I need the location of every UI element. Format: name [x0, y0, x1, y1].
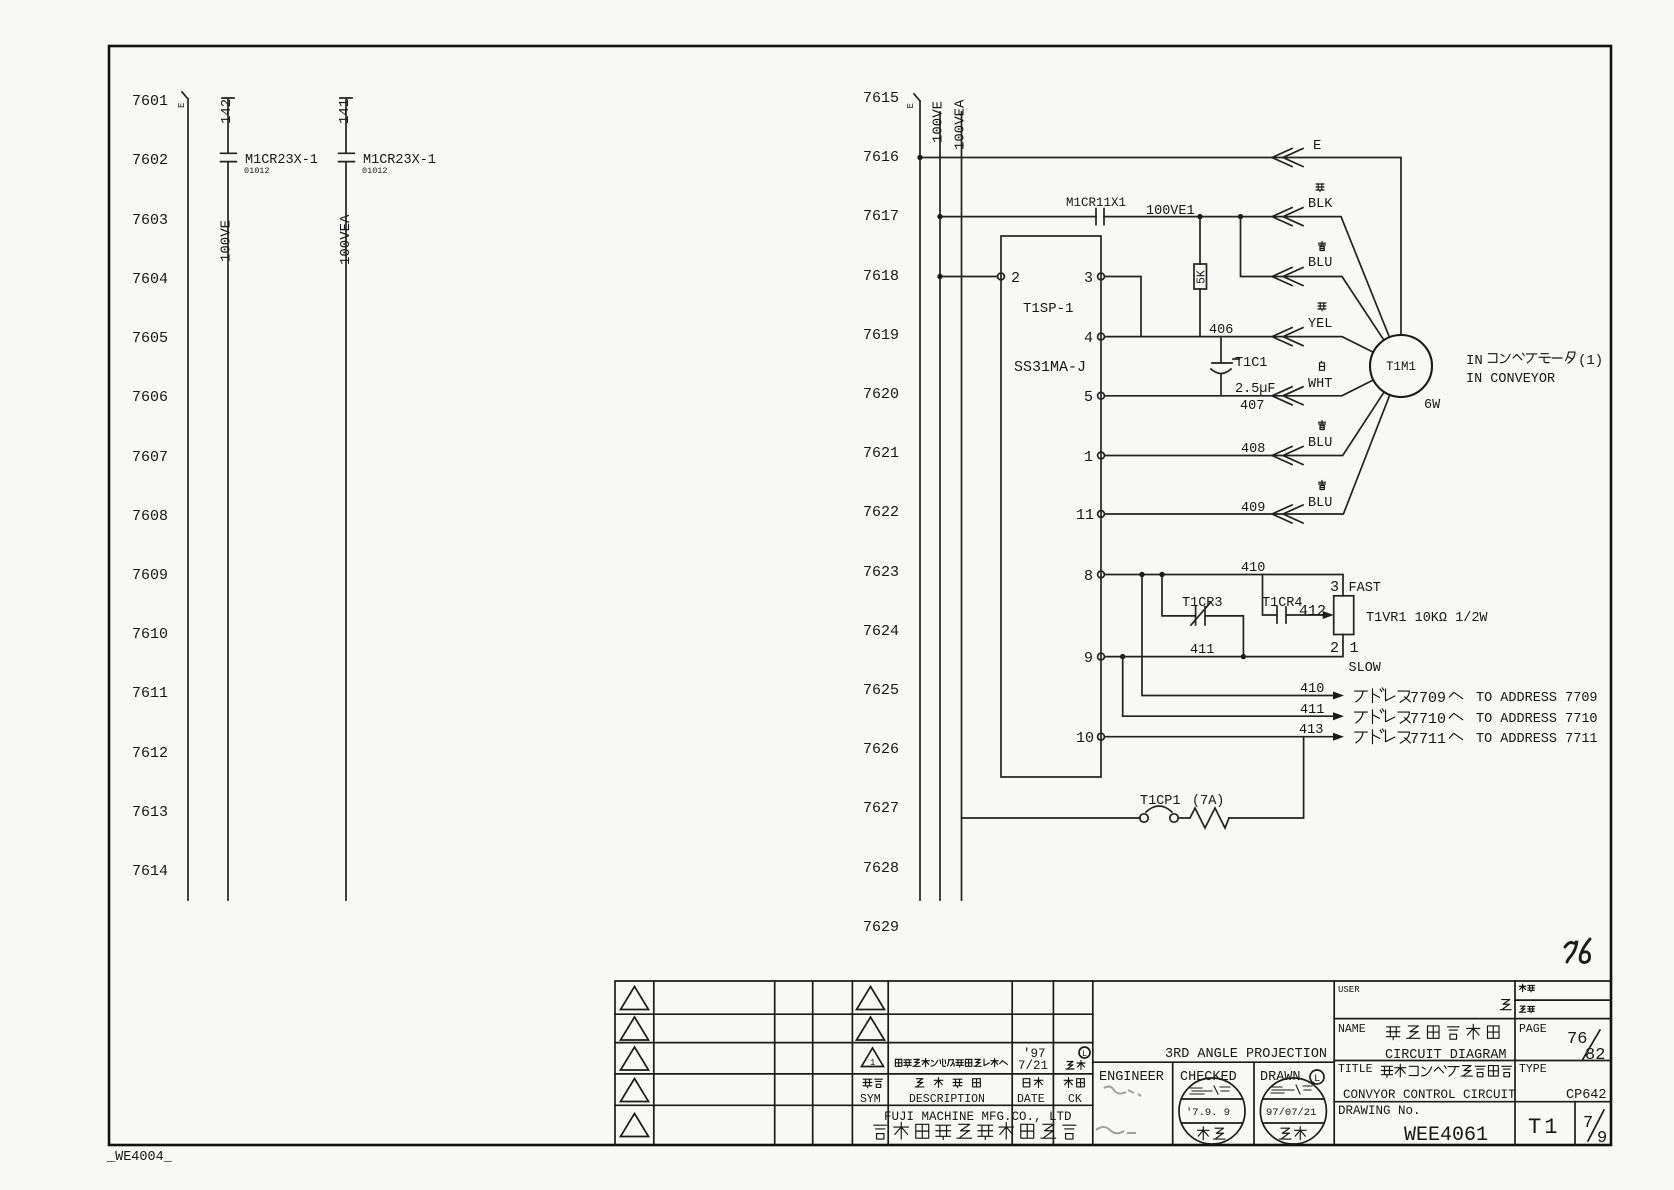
- svg-text:413: 413: [1299, 723, 1323, 738]
- svg-text:408: 408: [1241, 442, 1265, 457]
- wire 7617 100VE1 / BLK to motor: [940, 208, 1389, 338]
- svg-text:7611: 7611: [132, 685, 168, 702]
- net label 100VE1: [1146, 204, 1195, 219]
- svg-text:100VEA: 100VEA: [953, 99, 969, 150]
- svg-text:'7.9. 9: '7.9. 9: [1186, 1107, 1230, 1119]
- svg-text:7608: 7608: [132, 508, 168, 525]
- svg-text:T1SP-1: T1SP-1: [1023, 301, 1073, 317]
- junction T1CR3 x wire 411: [1241, 654, 1246, 659]
- svg-text:7709: 7709: [1410, 690, 1446, 707]
- svg-text:PAGE: PAGE: [1519, 1023, 1547, 1036]
- svg-text:USER: USER: [1338, 985, 1360, 995]
- net 100VE right bus: [931, 101, 947, 900]
- svg-text:NAME: NAME: [1338, 1023, 1366, 1036]
- wire 141 / net 100VEA left bus: [337, 98, 354, 900]
- junction 7617 x resistor branch: [1197, 214, 1202, 219]
- net 100VEA right bus: [953, 99, 969, 900]
- svg-text:T1M1: T1M1: [1386, 360, 1416, 374]
- svg-text:7628: 7628: [863, 860, 899, 877]
- page 76/82: [1519, 1023, 1605, 1065]
- svg-text:100VE: 100VE: [219, 220, 235, 262]
- svg-text:7710: 7710: [1410, 711, 1446, 728]
- svg-text:SS31MA-J: SS31MA-J: [1014, 359, 1086, 376]
- svg-text:7616: 7616: [863, 149, 899, 166]
- motor name IN conveyor motor (1): [1466, 352, 1603, 387]
- revision mark 1 row: [862, 1048, 884, 1068]
- svg-text:7618: 7618: [863, 268, 899, 285]
- sheet T1 7/9: [1528, 1110, 1607, 1148]
- svg-text:WEE4061: WEE4061: [1404, 1124, 1488, 1147]
- svg-text:7602: 7602: [132, 152, 168, 169]
- svg-text:7604: 7604: [132, 271, 168, 288]
- wire 7618 to connector pin 2: [940, 276, 998, 278]
- svg-text:E: E: [1313, 138, 1321, 154]
- svg-text:BLU: BLU: [1308, 256, 1332, 271]
- wire BLU jumper 7617 branch to motor: [1241, 217, 1384, 341]
- svg-text:WHT: WHT: [1308, 377, 1332, 392]
- wire 413 pin 10 to address 7711: [1104, 723, 1344, 741]
- svg-text:E: E: [906, 103, 916, 108]
- svg-text:T1CR3: T1CR3: [1182, 596, 1223, 611]
- potentiometer T1VR1: [1330, 579, 1488, 676]
- svg-text:T1CR4: T1CR4: [1262, 596, 1303, 611]
- wire 406 YEL to motor: [1104, 323, 1373, 352]
- drawing no WEE4061: [1338, 1104, 1488, 1147]
- type CP642: [1519, 1063, 1607, 1103]
- svg-text:FAST: FAST: [1349, 581, 1381, 596]
- wire 411 to address 7710: [1123, 657, 1344, 721]
- junction E x 7616: [917, 155, 922, 160]
- title block grid: [615, 981, 1611, 1145]
- svg-text:412: 412: [1299, 603, 1326, 620]
- wire color label BLU row 409: [1308, 481, 1332, 512]
- svg-text:1: 1: [1084, 449, 1093, 466]
- engineer pencil initials: [1096, 1086, 1141, 1133]
- label to address 7709: [1355, 688, 1598, 707]
- pin 4: [1084, 330, 1104, 347]
- svg-text:10: 10: [1076, 730, 1094, 747]
- svg-text:97/07/21: 97/07/21: [1266, 1107, 1316, 1119]
- svg-text:7/21: 7/21: [1018, 1059, 1048, 1073]
- checked stamp Yamamoto: [1179, 1078, 1245, 1144]
- svg-text:T1: T1: [1528, 1115, 1560, 1140]
- svg-text:7610: 7610: [132, 626, 168, 643]
- svg-text:7626: 7626: [863, 741, 899, 758]
- company name FUJI MACHINE MFG: [874, 1110, 1076, 1140]
- svg-text:3RD ANGLE PROJECTION: 3RD ANGLE PROJECTION: [1165, 1047, 1327, 1062]
- svg-text:7613: 7613: [132, 804, 168, 821]
- svg-text:7603: 7603: [132, 212, 168, 229]
- wire color label BLK: [1308, 184, 1333, 212]
- svg-text:141: 141: [337, 99, 353, 124]
- svg-text:01012: 01012: [244, 166, 270, 176]
- resistor 5K: [1194, 217, 1209, 337]
- svg-text:CONVYOR CONTROL CIRCUIT: CONVYOR CONTROL CIRCUIT: [1343, 1088, 1516, 1102]
- svg-text:SYM: SYM: [860, 1093, 881, 1106]
- header SYM / DESCRIPTION / DATE / CK: [860, 1078, 1084, 1106]
- svg-text:CP642: CP642: [1566, 1088, 1607, 1103]
- contact M1CR23X-1 (first): [221, 153, 318, 176]
- svg-text:YEL: YEL: [1308, 317, 1332, 332]
- svg-text:5: 5: [1084, 389, 1093, 406]
- svg-text:M1CR11X1: M1CR11X1: [1066, 196, 1126, 210]
- svg-text:L: L: [1314, 1073, 1320, 1085]
- junction 7617 x BLU branch: [1238, 214, 1243, 219]
- svg-text:7617: 7617: [863, 208, 899, 225]
- svg-text:BLK: BLK: [1308, 197, 1333, 212]
- title convyor control circuit: [1338, 1063, 1516, 1102]
- svg-text:BLU: BLU: [1308, 496, 1332, 511]
- capacitor T1CR4 wiper 412: [1262, 575, 1334, 624]
- capacitor T1C1 2.5uF: [1211, 337, 1276, 397]
- junction 7618 x 100VE: [937, 274, 942, 279]
- svg-text:9: 9: [1597, 1129, 1607, 1148]
- svg-text:TYPE: TYPE: [1519, 1063, 1547, 1076]
- svg-text:(1): (1): [1578, 353, 1603, 369]
- wire 408 BLU to motor: [1104, 392, 1384, 465]
- svg-text:82: 82: [1585, 1046, 1605, 1065]
- svg-text:IN: IN: [1466, 353, 1483, 369]
- svg-text:5K: 5K: [1196, 270, 1209, 284]
- pin 8: [1084, 568, 1104, 585]
- svg-text:TITLE: TITLE: [1338, 1063, 1373, 1076]
- svg-text:3: 3: [1330, 579, 1339, 596]
- pin 9: [1084, 650, 1104, 667]
- contact M1CR23X-1 (second): [339, 153, 436, 176]
- svg-text:7711: 7711: [1410, 731, 1446, 748]
- svg-text:SLOW: SLOW: [1349, 661, 1382, 676]
- svg-text:407: 407: [1240, 399, 1264, 414]
- contact M1CR11X1: [1066, 196, 1126, 225]
- junction pin8 x T1CR3 branch: [1159, 572, 1164, 577]
- svg-text:7612: 7612: [132, 745, 168, 762]
- pin 1: [1084, 449, 1104, 466]
- svg-text:T1C1: T1C1: [1235, 356, 1267, 371]
- svg-text:DATE: DATE: [1017, 1093, 1045, 1106]
- net E right bus: [906, 94, 920, 900]
- svg-text:7607: 7607: [132, 449, 168, 466]
- circuit protector T1CP1 (7A): [962, 794, 1230, 828]
- wire 142 / net 100VE left bus: [219, 98, 236, 900]
- svg-text:409: 409: [1241, 501, 1265, 516]
- svg-text:100VE: 100VE: [931, 101, 947, 143]
- svg-text:7627: 7627: [863, 800, 899, 817]
- svg-text:410: 410: [1300, 682, 1324, 697]
- svg-text:T1CP1: T1CP1: [1140, 794, 1181, 809]
- svg-text:7621: 7621: [863, 445, 899, 462]
- wire color label WHT: [1308, 361, 1332, 392]
- svg-text:E: E: [177, 103, 187, 108]
- 3rd angle projection: [1165, 1047, 1327, 1062]
- svg-text:7629: 7629: [863, 919, 899, 936]
- svg-text:T1VR1 10KΩ 1/2W: T1VR1 10KΩ 1/2W: [1366, 611, 1488, 626]
- svg-text:L: L: [1082, 1049, 1087, 1059]
- svg-text:(7A): (7A): [1192, 794, 1224, 809]
- svg-text:11: 11: [1076, 507, 1094, 524]
- svg-text:7624: 7624: [863, 623, 899, 640]
- revision by Esaka circled L: [1066, 1047, 1090, 1070]
- wire 413 branch down to T1CP1: [1229, 737, 1304, 818]
- label to address 7710: [1355, 709, 1598, 728]
- svg-text:2: 2: [1330, 640, 1339, 657]
- pin 5: [1084, 389, 1104, 406]
- svg-text:7619: 7619: [863, 327, 899, 344]
- user cell: [1338, 985, 1511, 1010]
- svg-text:7605: 7605: [132, 330, 168, 347]
- wire color label BLU row 408: [1308, 421, 1332, 452]
- revision triangles left table: [621, 987, 885, 1137]
- svg-text:3: 3: [1084, 270, 1093, 287]
- wire 410 to address 7709: [1142, 575, 1344, 700]
- svg-text:100VEA: 100VEA: [338, 214, 354, 265]
- svg-text:DRAWING No.: DRAWING No.: [1338, 1104, 1421, 1118]
- wire color label BLU top: [1308, 242, 1332, 272]
- svg-text:TO ADDRESS 7711: TO ADDRESS 7711: [1476, 732, 1598, 747]
- pin 10: [1076, 730, 1104, 747]
- svg-text:7620: 7620: [863, 386, 899, 403]
- junction 7617 x 100VE: [937, 214, 942, 219]
- wire color label YEL: [1308, 303, 1332, 332]
- svg-text:4: 4: [1084, 330, 1093, 347]
- svg-text:7622: 7622: [863, 504, 899, 521]
- capacitor T1CR3: [1162, 575, 1243, 657]
- pin 2: [998, 270, 1020, 287]
- svg-text:2: 2: [1011, 270, 1020, 287]
- wire pin3 jumper to row 406: [1104, 277, 1141, 337]
- svg-text:ENGINEER: ENGINEER: [1099, 1070, 1164, 1085]
- junction pin9 x addr411 branch: [1120, 654, 1125, 659]
- svg-text:2.5µF: 2.5µF: [1235, 382, 1276, 397]
- svg-text:7614: 7614: [132, 863, 168, 880]
- name circuit diagram: [1338, 1023, 1507, 1063]
- wire 411 pin 9 to T1VR1 pin 2: [1104, 635, 1343, 659]
- svg-text:TO ADDRESS 7709: TO ADDRESS 7709: [1476, 691, 1598, 706]
- pin 3: [1084, 270, 1104, 287]
- svg-text:CK: CK: [1068, 1093, 1082, 1106]
- svg-text:7623: 7623: [863, 564, 899, 581]
- revision date '97 7/21: [1018, 1047, 1048, 1073]
- svg-text:7609: 7609: [132, 567, 168, 584]
- svg-text:6W: 6W: [1424, 398, 1441, 413]
- svg-text:FUJI MACHINE MFG.CO., LTD: FUJI MACHINE MFG.CO., LTD: [884, 1110, 1072, 1124]
- wire 409 BLU to motor: [1104, 395, 1389, 523]
- handwritten page number 76: [1565, 939, 1590, 963]
- svg-text:1: 1: [870, 1058, 875, 1068]
- svg-text:_WE4004_: _WE4004_: [106, 1150, 173, 1165]
- engineer checked drawn headers: [1099, 1070, 1324, 1085]
- wire 407 WHT to motor: [1104, 380, 1373, 414]
- svg-text:DESCRIPTION: DESCRIPTION: [909, 1093, 985, 1106]
- sheet code WE4004: [106, 1150, 173, 1165]
- svg-text:9: 9: [1084, 650, 1093, 667]
- svg-text:100VE1: 100VE1: [1146, 204, 1195, 219]
- svg-text:8: 8: [1084, 568, 1093, 585]
- svg-text:BLU: BLU: [1308, 436, 1332, 451]
- svg-text:1: 1: [1350, 640, 1359, 657]
- svg-text:7625: 7625: [863, 682, 899, 699]
- row reference numbers 7615-7629: [863, 90, 899, 936]
- net E left bus: [177, 92, 188, 900]
- revision note text: [895, 1058, 1007, 1067]
- drawn stamp Esaka: [1260, 1078, 1326, 1144]
- svg-text:CIRCUIT DIAGRAM: CIRCUIT DIAGRAM: [1385, 1048, 1507, 1063]
- pin 11: [1076, 507, 1104, 524]
- connector T1SP-1 outline: [1001, 236, 1101, 777]
- svg-text:7601: 7601: [132, 93, 168, 110]
- wire 410 pin 8 to T1VR1 pin 3: [1104, 561, 1343, 596]
- junction pin8 x addr410 branch: [1139, 572, 1144, 577]
- row reference numbers 7601-7614: [132, 93, 168, 880]
- small cells bunban seiban: [1519, 984, 1534, 1013]
- wire E row 7616 to motor: [920, 138, 1401, 335]
- svg-text:411: 411: [1190, 643, 1214, 658]
- svg-text:411: 411: [1300, 703, 1324, 718]
- svg-text:7615: 7615: [863, 90, 899, 107]
- svg-text:7606: 7606: [132, 389, 168, 406]
- svg-text:IN CONVEYOR: IN CONVEYOR: [1466, 372, 1555, 387]
- label to address 7711: [1355, 729, 1598, 748]
- motor T1M1: [1370, 335, 1441, 413]
- svg-text:TO ADDRESS 7710: TO ADDRESS 7710: [1476, 712, 1598, 727]
- svg-text:01012: 01012: [362, 166, 388, 176]
- svg-text:7: 7: [1583, 1114, 1593, 1133]
- svg-text:142: 142: [219, 99, 235, 124]
